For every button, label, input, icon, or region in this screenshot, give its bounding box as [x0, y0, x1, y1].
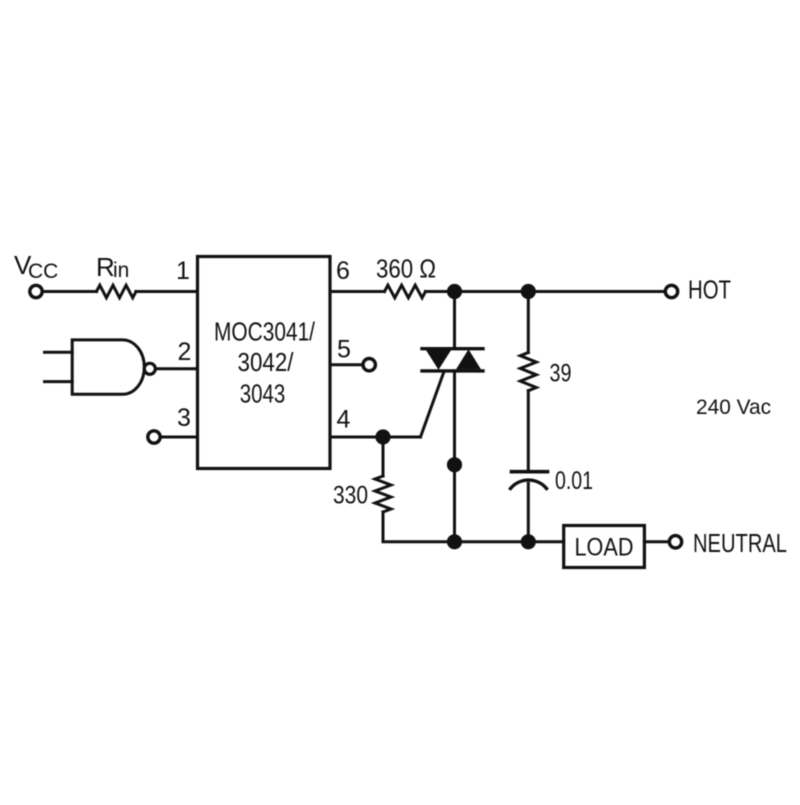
- wire hot node down to triac: [453, 292, 456, 348]
- NAND gate body: [72, 340, 144, 394]
- wire Rin to pin 1: [136, 290, 198, 293]
- svg-text:5: 5: [337, 335, 351, 363]
- capacitor C1 top plate: [512, 470, 548, 474]
- LOAD box: [564, 526, 645, 568]
- triac Q1 bottom bar: [422, 369, 483, 372]
- wire pin 4 to gate node: [330, 436, 383, 439]
- junction dot mid vertical: [447, 457, 462, 472]
- junction dot triac top node: [447, 284, 462, 299]
- svg-text:R: R: [96, 252, 115, 282]
- wire pin 5 to terminal: [330, 363, 363, 366]
- svg-text:240 Vac: 240 Vac: [696, 396, 771, 419]
- terminal NEUTRAL: [669, 536, 681, 548]
- triac Q1 right triangle: [456, 349, 481, 369]
- terminal VCC: [30, 285, 42, 297]
- triac Q1 left triangle: [426, 350, 452, 370]
- svg-text:NEUTRAL: NEUTRAL: [693, 528, 787, 558]
- resistor Rin label: [96, 252, 129, 282]
- terminal HOT: [665, 285, 677, 297]
- NAND gate input wire bottom: [45, 380, 73, 383]
- wire pin 3 terminal to IC: [161, 436, 198, 439]
- wire snubber node down to 39 resistor: [527, 292, 530, 353]
- wire neutral line to LOAD: [455, 540, 564, 543]
- resistor Rin: [97, 285, 137, 298]
- IC U1 MOC3041 box: [198, 257, 331, 469]
- resistor R 39: [520, 353, 536, 391]
- svg-text:1: 1: [176, 257, 190, 285]
- svg-text:2: 2: [178, 338, 192, 366]
- wire 360 ohm to HOT terminal: [426, 290, 666, 293]
- wire pin 4 node down to 330 resistor: [382, 437, 385, 476]
- svg-text:in: in: [113, 259, 129, 282]
- NAND gate input wire top: [45, 351, 73, 354]
- svg-text:39: 39: [550, 360, 572, 388]
- wire 39 resistor to capacitor: [527, 391, 530, 470]
- wire gate to pin 4 node: [383, 436, 421, 439]
- svg-text:3042/: 3042/: [238, 347, 295, 377]
- terminal pin 3: [148, 431, 160, 443]
- svg-text:CC: CC: [28, 260, 58, 283]
- triac Q1 top bar: [422, 347, 483, 350]
- wire NAND output to pin 2: [156, 367, 198, 370]
- svg-text:3: 3: [177, 404, 191, 432]
- wire capacitor to neutral line: [527, 484, 530, 542]
- svg-text:330: 330: [333, 482, 368, 510]
- resistor R 330: [375, 476, 391, 512]
- junction dot capacitor at neutral line: [521, 534, 536, 549]
- junction dot pin 4 gate node: [375, 429, 390, 444]
- junction dot snubber top node: [521, 284, 536, 299]
- wire 330 resistor to neutral line: [383, 512, 455, 542]
- svg-text:0.01: 0.01: [555, 467, 593, 495]
- svg-text:4: 4: [337, 406, 351, 434]
- svg-text:LOAD: LOAD: [575, 534, 634, 562]
- node VCC label: [14, 250, 58, 283]
- resistor R 360 ohm: [385, 285, 426, 298]
- svg-text:6: 6: [336, 257, 350, 285]
- svg-text:HOT: HOT: [688, 275, 731, 305]
- svg-text:360 Ω: 360 Ω: [376, 254, 436, 284]
- junction dot triac bottom at neutral line: [447, 534, 462, 549]
- capacitor C1 curved bottom plate: [511, 480, 547, 488]
- wire VCC to Rin: [44, 290, 97, 293]
- NAND gate inverter bubble: [144, 363, 155, 374]
- svg-text:MOC3041/: MOC3041/: [214, 316, 316, 346]
- triac gate diagonal lead: [421, 372, 445, 438]
- wire LOAD to NEUTRAL terminal: [644, 540, 669, 543]
- wire triac bottom down to neutral line: [453, 371, 456, 542]
- U1 value label MOC3041/3042/3043: [214, 316, 316, 408]
- terminal pin 5: [363, 359, 375, 371]
- svg-text:3043: 3043: [240, 378, 286, 408]
- wire pin 6 to 360 ohm resistor: [330, 290, 385, 293]
